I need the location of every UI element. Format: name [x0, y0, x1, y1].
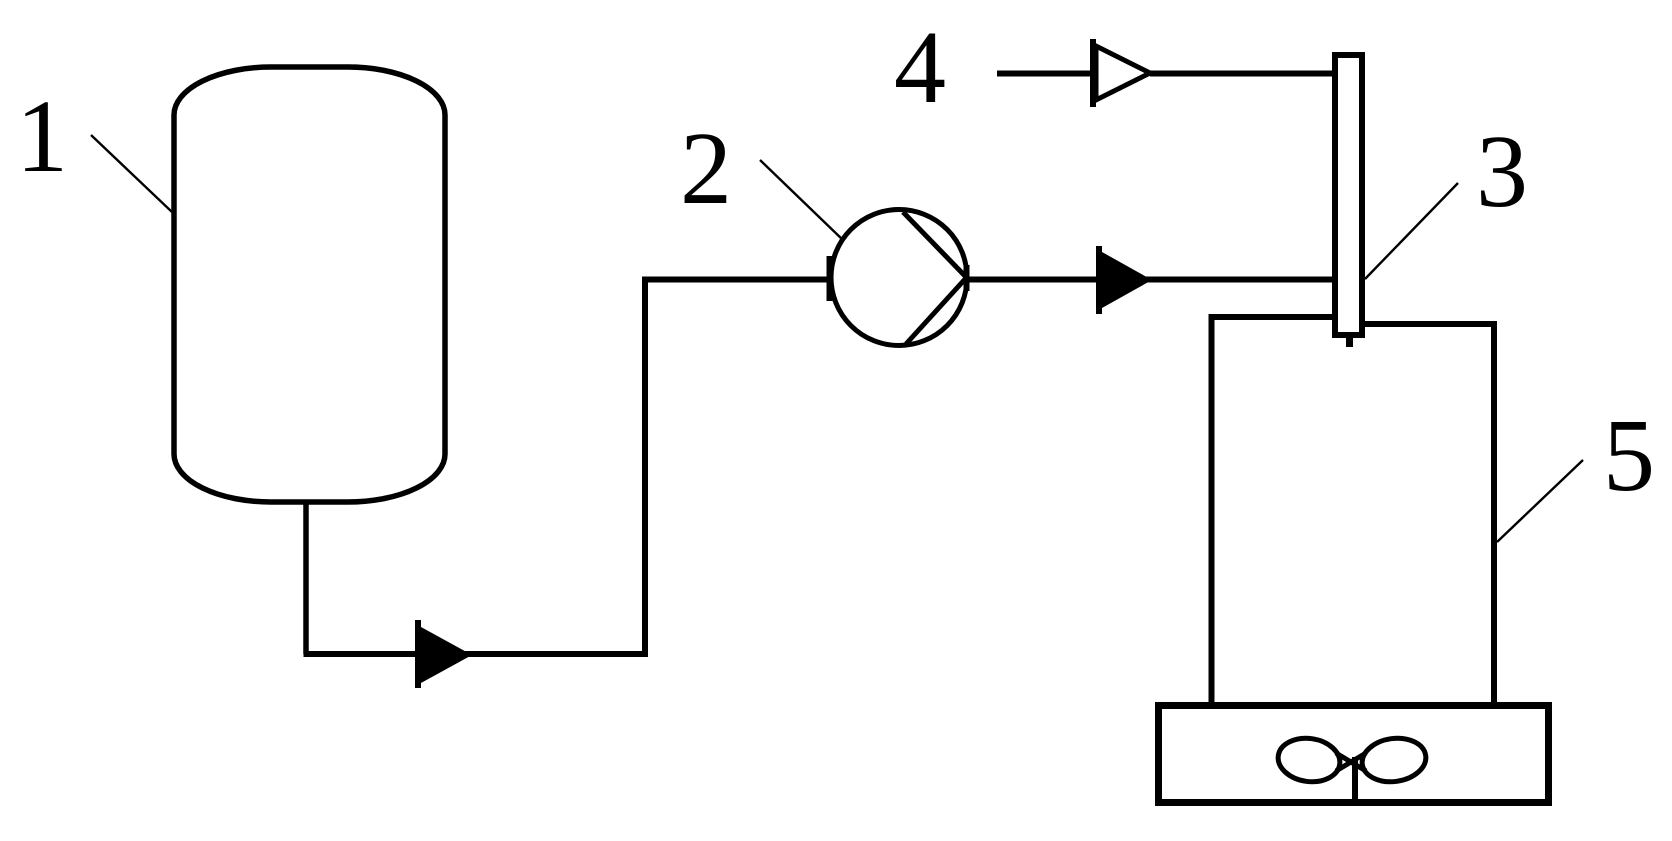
- stirrer rotor cross B: [1336, 753, 1366, 771]
- leader line to pump 2: [760, 160, 844, 241]
- stirrer rotor right loop: [1359, 734, 1428, 785]
- hollow arrow head: [1096, 46, 1150, 100]
- hollow arrow back tick: [1090, 39, 1096, 107]
- leader line to tank 1: [91, 135, 172, 212]
- stirrer shaft: [1352, 757, 1358, 801]
- pump 2 lower chord: [906, 278, 967, 345]
- tank 1 (feed vessel, rounded capsule): [174, 67, 445, 502]
- flow arrow on bottom pipe (head): [421, 627, 472, 683]
- pipe: tank outlet down: [303, 502, 309, 654]
- flow arrow on outlet pipe (head): [1102, 252, 1152, 308]
- chamber 5 right wall and top-right: [1365, 324, 1494, 706]
- svg-text:4: 4: [894, 10, 946, 125]
- chamber 5 left wall and top-left: [1212, 317, 1333, 706]
- pipe: horizontal into pump: [642, 277, 830, 283]
- pump inlet flange tick: [827, 256, 833, 301]
- nozzle tip tick: [1346, 338, 1353, 347]
- stirrer base (magnetic stirrer): [1159, 706, 1549, 803]
- gas line from 4: [997, 71, 1090, 77]
- svg-text:2: 2: [680, 111, 732, 226]
- svg-text:3: 3: [1476, 114, 1528, 229]
- flow arrow on outlet pipe (tick): [1096, 246, 1102, 314]
- pump 2 upper chord: [903, 212, 967, 278]
- svg-text:5: 5: [1603, 398, 1655, 513]
- pipe: riser up to pump: [642, 280, 648, 658]
- leader line to chamber 5: [1497, 460, 1583, 542]
- pump 2 (circle): [831, 210, 967, 346]
- flow arrow on bottom pipe (tick): [415, 620, 421, 688]
- nozzle bar 3 (vertical tube): [1335, 55, 1362, 335]
- stirrer rotor cross A: [1336, 753, 1366, 771]
- pump outlet flange tick: [964, 265, 970, 291]
- leader line to nozzle 3: [1365, 183, 1458, 279]
- svg-text:1: 1: [16, 79, 68, 194]
- pipe: pump outlet to nozzle bar: [966, 277, 1332, 283]
- gas line continuation to nozzle bar: [1150, 71, 1332, 77]
- stirrer rotor left loop: [1275, 734, 1342, 785]
- pipe: bottom horizontal run: [304, 651, 646, 657]
